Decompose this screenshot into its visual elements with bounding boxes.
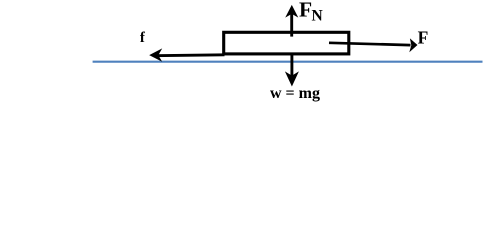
svg-text:FN: FN bbox=[299, 0, 323, 24]
svg-text:F: F bbox=[418, 27, 429, 47]
friction arrow f (left) bbox=[149, 48, 224, 61]
weight arrow w (down) bbox=[285, 54, 299, 87]
svg-text:w = mg: w = mg bbox=[270, 85, 320, 102]
svg-text:f: f bbox=[140, 30, 146, 46]
surface line (ground) bbox=[93, 61, 483, 63]
normal force arrow FN (up) bbox=[285, 5, 298, 37]
block (box) bbox=[224, 32, 349, 54]
applied force arrow F (right) bbox=[329, 38, 418, 52]
